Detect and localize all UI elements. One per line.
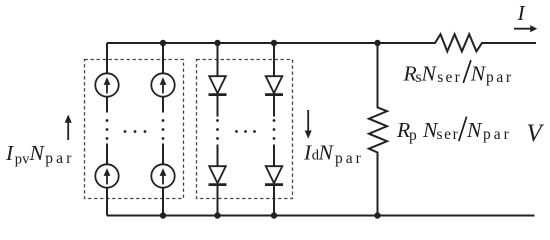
svg-text:N: N <box>29 141 46 165</box>
svg-text:p: p <box>409 127 417 144</box>
svg-text:par: par <box>486 69 514 86</box>
svg-text:N: N <box>470 62 487 86</box>
svg-text:par: par <box>45 150 74 167</box>
svg-text:N: N <box>466 118 483 142</box>
svg-text:I: I <box>303 141 312 165</box>
svg-text:N: N <box>421 62 438 86</box>
svg-text:N: N <box>318 141 335 165</box>
svg-text:V: V <box>527 120 545 147</box>
svg-text:I: I <box>5 141 14 165</box>
svg-text:ser: ser <box>437 69 462 86</box>
svg-text:I: I <box>517 1 526 25</box>
svg-text:par: par <box>335 150 364 167</box>
svg-text:par: par <box>483 126 512 143</box>
svg-text:pv: pv <box>15 152 30 168</box>
svg-text:ser: ser <box>437 126 460 143</box>
